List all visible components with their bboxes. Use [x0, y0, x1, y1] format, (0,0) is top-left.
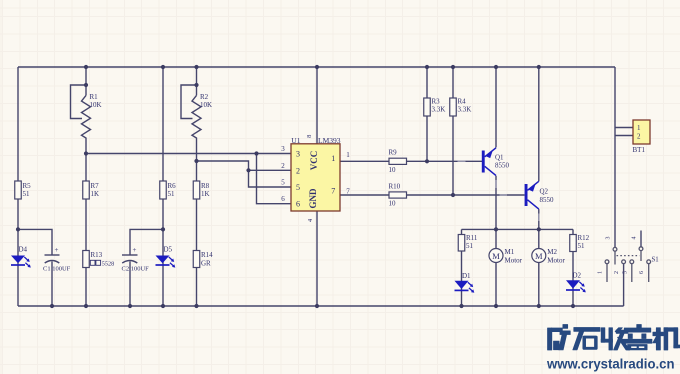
svg-text:8: 8 — [306, 135, 313, 138]
node rail R1 — [84, 65, 88, 69]
wire R10 to Q2 base — [407, 194, 525, 196]
svg-text:LM393: LM393 — [318, 136, 341, 145]
svg-text:C1 100UF: C1 100UF — [43, 266, 71, 273]
wire R11 column — [461, 229, 463, 306]
wire R9 to Q1 base — [407, 160, 483, 162]
svg-text:5528: 5528 — [102, 260, 114, 267]
transistor Q1 — [482, 148, 496, 176]
node gnd M1 — [494, 304, 498, 308]
node rail R2 — [194, 65, 198, 69]
node rail pin8 — [315, 65, 319, 69]
resistor R12 — [570, 235, 577, 252]
svg-text:1: 1 — [637, 124, 641, 132]
wire BT1 pin2 stub — [615, 135, 633, 137]
wire Q1 collector pin faint — [495, 180, 497, 188]
node rail R6 — [161, 65, 165, 69]
wire C1 branch — [18, 229, 52, 255]
svg-text:2: 2 — [614, 271, 620, 274]
svg-text:3: 3 — [296, 150, 300, 159]
svg-text:4: 4 — [307, 218, 314, 222]
svg-text:R14: R14 — [201, 251, 213, 259]
wire Q1 emitter to rail — [495, 67, 497, 148]
svg-text:D5: D5 — [164, 246, 173, 254]
LED D5 — [156, 256, 176, 268]
svg-text:R9: R9 — [389, 149, 398, 157]
node R1 top loop — [84, 83, 88, 87]
svg-text:R4: R4 — [458, 98, 467, 106]
wire M1 column — [495, 229, 497, 306]
node pin6 branch — [254, 151, 258, 155]
node gnd D5 — [161, 304, 165, 308]
svg-text:D2: D2 — [573, 272, 582, 280]
battery connector BT1 body — [633, 120, 650, 144]
svg-text:Q2: Q2 — [540, 188, 549, 196]
svg-text:6: 6 — [639, 271, 645, 274]
node D5 C2 — [161, 227, 165, 231]
watermark hanzi shou — [601, 328, 629, 350]
svg-text:VCC: VCC — [309, 151, 319, 171]
svg-text:3.3K: 3.3K — [432, 106, 446, 114]
svg-text:7: 7 — [331, 187, 335, 196]
node rail Q1 emitter — [494, 65, 498, 69]
svg-text:D1: D1 — [462, 272, 471, 280]
svg-text:1: 1 — [331, 154, 335, 163]
wire Q2 base pin faint — [500, 194, 508, 196]
svg-text:M: M — [535, 251, 543, 261]
svg-text:51: 51 — [23, 190, 31, 198]
svg-text:4: 4 — [632, 237, 638, 240]
svg-text:Motor: Motor — [505, 257, 523, 265]
wire Q2 collector down — [538, 209, 540, 229]
svg-text:C2 100UF: C2 100UF — [122, 266, 150, 273]
wire C1 to ground — [51, 262, 53, 307]
watermark hanzi yin — [623, 324, 652, 349]
svg-text:BT1: BT1 — [633, 146, 646, 154]
svg-text:+: + — [55, 246, 59, 254]
svg-text:6: 6 — [296, 200, 300, 209]
svg-text:R12: R12 — [578, 234, 590, 242]
wire switch pin2 to ground rail — [623, 264, 625, 306]
svg-text:D4: D4 — [19, 246, 28, 254]
svg-text:+: + — [133, 246, 137, 254]
wire bottom GND rail — [18, 305, 624, 307]
wire R6 D5 column — [162, 67, 164, 306]
svg-text:8550: 8550 — [495, 162, 510, 170]
svg-text:2: 2 — [296, 166, 300, 175]
svg-text:3: 3 — [281, 145, 285, 153]
node rail Q2 emitter — [537, 65, 541, 69]
resistor R10 — [389, 192, 407, 198]
motor M1 — [489, 249, 503, 263]
node A R1 bottom — [84, 151, 88, 155]
svg-text:R1: R1 — [90, 93, 99, 101]
node gnd D2 — [571, 304, 575, 308]
node gnd M2 — [537, 304, 541, 308]
resistor R6 — [160, 181, 167, 199]
svg-text:3.3K: 3.3K — [458, 106, 472, 114]
svg-text:2: 2 — [281, 162, 285, 170]
svg-text:R5: R5 — [23, 182, 32, 190]
wire left branch — [17, 67, 19, 306]
svg-text:Motor: Motor — [547, 257, 565, 265]
node gnd D1 — [459, 304, 463, 308]
node gnd C2 — [128, 304, 132, 308]
wire pin 8 — [316, 67, 318, 144]
svg-text:R13: R13 — [91, 251, 103, 259]
wire motor row — [462, 228, 574, 230]
svg-text:1: 1 — [598, 271, 604, 274]
op-amp U1 LM393 body — [291, 144, 340, 211]
watermark hanzi shi — [573, 327, 600, 350]
svg-text:M2: M2 — [547, 248, 557, 256]
LED D2 — [566, 280, 586, 292]
svg-text:7: 7 — [346, 187, 350, 195]
wire R12 column — [572, 229, 574, 306]
wire R7 column — [85, 154, 87, 307]
wire R8 column — [196, 161, 198, 306]
node gnd R14 — [194, 304, 198, 308]
watermark hanzi ji — [653, 328, 680, 350]
wire R4 column — [452, 67, 454, 195]
svg-text:10: 10 — [389, 200, 397, 208]
svg-text:5: 5 — [622, 271, 628, 274]
LED D1 — [455, 281, 475, 293]
svg-text:51: 51 — [466, 242, 474, 250]
svg-text:1: 1 — [346, 151, 350, 159]
switch S1 — [605, 247, 651, 282]
wire R1 column top — [85, 67, 87, 95]
wire Q2 collector pin faint — [538, 214, 540, 222]
svg-text:R3: R3 — [432, 98, 441, 106]
wire top VCC rail — [18, 66, 615, 68]
resistor R8 — [193, 181, 200, 199]
svg-text:2: 2 — [637, 133, 641, 141]
svg-text:8550: 8550 — [540, 196, 555, 204]
svg-text:GND: GND — [308, 188, 318, 209]
node R2 top loop — [194, 83, 198, 87]
wire BT1 pin1 stub — [615, 127, 633, 129]
wire pin7 to R10 — [340, 194, 389, 196]
resistor R9 — [389, 158, 407, 164]
svg-text:R10: R10 — [389, 183, 401, 191]
wire rail to BT1 pin1 — [614, 67, 616, 247]
svg-text:www.crystalradio.cn: www.crystalradio.cn — [546, 356, 674, 371]
svg-text:M1: M1 — [505, 248, 515, 256]
wire R3 column — [426, 67, 428, 161]
svg-text:51: 51 — [578, 242, 586, 250]
svg-text:10K: 10K — [90, 101, 102, 109]
transistor Q2 — [525, 181, 539, 209]
node rail R4 — [451, 65, 455, 69]
svg-text:Q1: Q1 — [495, 154, 504, 162]
wire Q2 emitter to rail — [538, 67, 540, 181]
node D4 C1 — [16, 227, 20, 231]
resistor R2 — [192, 95, 201, 161]
svg-text:R7: R7 — [91, 182, 100, 190]
wire M2 column — [538, 229, 540, 306]
node gnd pin4 — [315, 304, 319, 308]
resistor R1 — [82, 95, 91, 153]
svg-text:R2: R2 — [200, 93, 209, 101]
node B R2 bottom — [194, 159, 198, 163]
svg-text:10: 10 — [389, 166, 397, 174]
svg-text:10K: 10K — [200, 101, 212, 109]
wire Q1 collector down — [495, 176, 497, 230]
svg-text:U1: U1 — [291, 136, 300, 145]
watermark hanzi kuang — [548, 324, 571, 350]
capacitor C2 — [122, 246, 138, 263]
svg-text:5: 5 — [281, 179, 285, 187]
svg-text:51: 51 — [168, 190, 176, 198]
svg-text:5: 5 — [296, 183, 300, 192]
node pin2 branch — [246, 168, 250, 172]
wire switch pin4 lead — [640, 231, 642, 247]
photoresistor R13 — [83, 251, 90, 268]
wire pin1 to R9 — [340, 160, 389, 162]
node Q1 collector M1 — [494, 227, 498, 231]
resistor R7 — [83, 181, 90, 199]
svg-text:M: M — [492, 251, 500, 261]
wire pin 4 — [316, 211, 318, 306]
wire node A to pin 6 — [257, 154, 292, 204]
svg-text:3: 3 — [606, 237, 612, 240]
photoresistor R14 — [193, 251, 200, 268]
svg-text:GR: GR — [201, 260, 211, 268]
capacitor C1 — [45, 246, 60, 263]
svg-text:6: 6 — [281, 195, 285, 203]
wire R2 column top — [196, 67, 198, 95]
svg-text:R8: R8 — [201, 182, 210, 190]
node R9 R3 — [425, 159, 429, 163]
resistor R3 — [424, 98, 431, 116]
resistor R11 — [458, 235, 465, 252]
motor M2 — [532, 249, 546, 263]
node rail R3 — [425, 65, 429, 69]
node gnd C1 — [50, 304, 54, 308]
node R10 R4 — [451, 193, 455, 197]
wire R2 loop — [181, 85, 197, 119]
wire node B to pins 2 and 5 — [197, 161, 292, 187]
svg-text:1K: 1K — [201, 190, 210, 198]
resistor R4 — [450, 98, 457, 116]
svg-text:R11: R11 — [466, 234, 478, 242]
LED D4 — [11, 256, 31, 268]
wire Q1 base pin faint — [458, 160, 466, 162]
node gnd R13 — [84, 304, 88, 308]
resistor R5 — [15, 181, 22, 199]
wire C2 branch — [130, 229, 163, 255]
svg-text:S1: S1 — [652, 257, 659, 264]
wire node A to pin3 — [86, 153, 291, 155]
svg-text:R6: R6 — [168, 182, 177, 190]
node Q2 collector M2 — [537, 227, 541, 231]
svg-text:1K: 1K — [91, 190, 100, 198]
wire C2 to ground — [129, 262, 131, 307]
wire R1 loop — [71, 85, 87, 119]
